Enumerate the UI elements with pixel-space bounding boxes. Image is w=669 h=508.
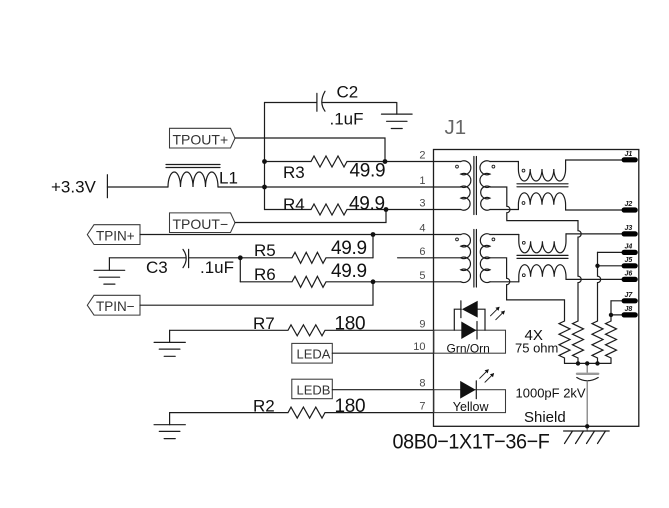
- LED pair box Grn/Orn: [434, 330, 506, 353]
- svg-text:75 ohm: 75 ohm: [515, 341, 558, 356]
- LED A upper (points left): [461, 301, 478, 318]
- phase dot T2 secondary: [492, 238, 495, 241]
- power +3.3V terminal: [106, 175, 108, 198]
- wire resistor commons: [565, 362, 612, 364]
- resistor R4: [265, 204, 387, 215]
- wire T1 secondary bottom to choke: [490, 209, 518, 211]
- flag TPOUT-: [170, 213, 236, 233]
- resistor R2: [170, 407, 434, 418]
- svg-text:R3: R3: [283, 163, 305, 182]
- svg-text:L1: L1: [219, 169, 238, 188]
- connector J1 box: [434, 150, 639, 427]
- choke T1 bottom winding: [518, 193, 565, 210]
- svg-text:LEDB: LEDB: [297, 383, 331, 398]
- svg-text:R4: R4: [283, 195, 305, 214]
- label box LEDB: [292, 379, 333, 399]
- svg-text:7: 7: [419, 401, 425, 413]
- svg-text:TPOUT−: TPOUT−: [173, 216, 229, 232]
- capacitor C3: [109, 249, 240, 267]
- svg-text:10: 10: [413, 341, 425, 353]
- svg-text:R7: R7: [253, 314, 275, 333]
- capacitor 1000pF 2kV: [577, 363, 598, 431]
- ground (C3): [94, 258, 125, 284]
- wire +3.3V to L1: [107, 186, 168, 188]
- wire T2 secondary center tap: [490, 258, 565, 321]
- wire pin8 LEDB: [332, 389, 434, 391]
- svg-text:J1: J1: [445, 116, 467, 139]
- resistor 75ohm D: [606, 321, 617, 363]
- svg-text:J2: J2: [625, 201, 633, 208]
- phase dot choke T1 bottom: [522, 202, 525, 205]
- pin numbers: [413, 150, 425, 413]
- wire R4 branch: [264, 187, 266, 210]
- wire pin3: [386, 209, 461, 211]
- svg-text:C3: C3: [146, 258, 168, 277]
- svg-text:R6: R6: [254, 265, 276, 284]
- wire J3 row: [566, 233, 622, 235]
- transformer T2 secondary winding: [480, 234, 490, 283]
- wire J6 row: [566, 278, 622, 280]
- svg-text:J7: J7: [625, 292, 634, 299]
- wire choke T1 bottom to J2 pad: [566, 209, 622, 211]
- connector pads J1-J8: [622, 157, 638, 317]
- phase dot T1 primary: [456, 165, 459, 168]
- svg-text:1: 1: [419, 175, 425, 187]
- resistor 75ohm B: [573, 321, 584, 363]
- LED box Yellow: [434, 390, 506, 413]
- wire J4-J5 tie: [597, 252, 599, 265]
- phase dot choke T2 bottom: [522, 274, 525, 277]
- svg-text:49.9: 49.9: [350, 161, 386, 182]
- LED B emission arrows: [480, 369, 494, 382]
- svg-text:3: 3: [419, 198, 425, 210]
- ground (R7): [154, 330, 185, 356]
- ground (R2): [154, 413, 185, 439]
- flag TPIN+: [87, 225, 140, 245]
- LED B (points right): [460, 381, 476, 399]
- svg-text:1000pF 2kV: 1000pF 2kV: [516, 386, 586, 401]
- wire pin5: [373, 281, 461, 283]
- choke T2 top winding: [519, 234, 566, 253]
- wire J8 down to resistor: [610, 315, 612, 321]
- choke T1 top winding: [518, 160, 565, 181]
- LED A lower (points right): [461, 322, 477, 340]
- svg-text:9: 9: [419, 318, 425, 330]
- svg-text:49.9: 49.9: [349, 194, 385, 215]
- svg-text:08B0−1X1T−36−F: 08B0−1X1T−36−F: [393, 430, 550, 454]
- wire choke T1 top to J1 pad: [566, 159, 622, 161]
- svg-text:J8: J8: [625, 306, 633, 313]
- svg-text:J3: J3: [625, 225, 633, 232]
- transformer T1 secondary winding: [480, 161, 490, 210]
- LED A loop wires: [454, 309, 485, 330]
- choke T1 core: [517, 183, 568, 185]
- wire T1 secondary top to choke: [490, 161, 518, 163]
- transformer T2 primary winding: [461, 234, 471, 283]
- phase dot T2 primary: [456, 238, 459, 241]
- svg-text:4: 4: [419, 223, 425, 235]
- svg-text:5: 5: [419, 270, 425, 282]
- svg-text:LEDA: LEDA: [297, 347, 331, 362]
- flag TPIN-: [87, 295, 140, 315]
- svg-text:Shield: Shield: [524, 409, 566, 426]
- wire J5 down with hop over J6: [598, 266, 601, 321]
- wire pin10 LEDA: [332, 352, 434, 354]
- wire J7-J8 tie: [610, 301, 612, 315]
- svg-text:2: 2: [419, 150, 425, 162]
- wire T2 secondary bottom to choke: [490, 281, 519, 283]
- svg-text:J5: J5: [625, 257, 633, 264]
- svg-text:R2: R2: [253, 397, 275, 416]
- resistor R5: [240, 252, 373, 263]
- pin6 stub: [398, 257, 461, 259]
- resistor R7: [170, 325, 434, 336]
- inductor L1: [166, 165, 220, 188]
- svg-text:TPIN+: TPIN+: [96, 229, 135, 244]
- label box LEDA: [292, 343, 333, 363]
- svg-text:Yellow: Yellow: [453, 400, 490, 414]
- transformer T1 primary winding: [461, 161, 471, 210]
- wire pin2: [385, 161, 461, 163]
- svg-text:+3.3V: +3.3V: [51, 178, 97, 197]
- pad labels: [625, 151, 634, 313]
- wire J7 row: [611, 300, 622, 302]
- capacitor C2: [265, 91, 397, 111]
- svg-text:180: 180: [335, 396, 366, 417]
- wire TPOUT+: [235, 138, 385, 162]
- wire J4 row: [598, 251, 622, 253]
- svg-text:180: 180: [335, 314, 366, 335]
- wire J8 row: [611, 314, 622, 316]
- resistor 75ohm C: [592, 321, 603, 363]
- svg-text:TPIN−: TPIN−: [96, 299, 135, 314]
- wire TPIN-: [140, 282, 373, 305]
- transformer T1 core: [473, 157, 475, 215]
- resistor 75ohm A: [559, 321, 570, 363]
- wire R6 branch: [239, 258, 241, 282]
- phase dot choke T1 top: [522, 169, 525, 172]
- svg-text:C2: C2: [337, 83, 359, 102]
- resistor R3: [265, 156, 386, 167]
- wire R5 up to pin4: [372, 235, 374, 258]
- transformer T2 core: [473, 230, 475, 288]
- choke T2 bottom winding: [519, 265, 566, 282]
- svg-text:6: 6: [419, 246, 425, 258]
- choke T2 core: [517, 254, 568, 256]
- phase dot choke T2 top: [522, 241, 525, 244]
- ground (C2): [382, 103, 413, 129]
- wire T1 secondary center tap: [490, 187, 581, 321]
- wire C2 branch vertical: [264, 103, 266, 188]
- resistor R6: [240, 276, 373, 287]
- svg-text:49.9: 49.9: [331, 261, 367, 282]
- svg-text:J6: J6: [625, 271, 633, 278]
- wire TPOUT-: [235, 210, 386, 223]
- svg-text:R5: R5: [254, 241, 276, 260]
- svg-text:8: 8: [419, 378, 425, 390]
- svg-text:TPOUT+: TPOUT+: [173, 132, 229, 148]
- wire L1 to J1 pin 1: [218, 186, 461, 188]
- svg-text:Grn/Orn: Grn/Orn: [447, 342, 490, 356]
- wire pin4 TPIN+: [140, 234, 461, 236]
- shield chassis ground: [564, 431, 610, 444]
- svg-text:J1: J1: [625, 151, 633, 158]
- wire J5 row: [598, 265, 622, 267]
- svg-text:J4: J4: [625, 244, 633, 251]
- svg-text:.1uF: .1uF: [200, 258, 234, 277]
- svg-text:49.9: 49.9: [331, 238, 367, 259]
- LED A emission arrows: [491, 307, 505, 320]
- flag TPOUT+: [170, 128, 236, 148]
- phase dot T1 secondary: [492, 165, 495, 168]
- wire T2 secondary top to choke: [490, 234, 519, 236]
- svg-text:.1uF: .1uF: [330, 110, 364, 129]
